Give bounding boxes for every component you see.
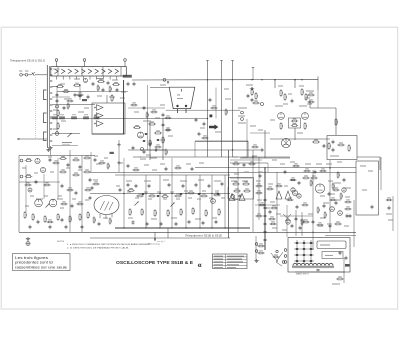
value label xyxy=(318,225,323,227)
resistor R27 xyxy=(291,119,298,122)
value label xyxy=(288,93,292,95)
resistor R timebase xyxy=(335,118,338,126)
input jack J2 xyxy=(25,74,28,77)
capacitor C11 xyxy=(250,87,254,90)
capacitor C58 xyxy=(349,214,352,218)
value label xyxy=(144,191,148,193)
value label xyxy=(266,207,270,209)
resistor pair R5 xyxy=(52,117,57,119)
neon lamp N1 xyxy=(286,220,290,224)
capacitor C66 xyxy=(127,164,130,168)
delay line section 6 xyxy=(88,69,92,74)
capacitor C68 xyxy=(191,167,194,171)
value label xyxy=(270,119,275,121)
grid cap bead xyxy=(167,81,169,83)
value label xyxy=(242,180,248,182)
resistor R126 xyxy=(24,183,31,186)
wire: LF drop a xyxy=(25,165,27,212)
value label xyxy=(258,171,263,173)
resistor R89 xyxy=(150,110,157,113)
tube heater terminal 2 xyxy=(83,59,86,62)
delay line section 4 xyxy=(75,69,79,74)
value label xyxy=(109,96,115,98)
wire xyxy=(264,130,266,158)
ext input jack xyxy=(241,118,244,121)
wire: LF drop c xyxy=(57,158,59,199)
resistor R87 xyxy=(97,85,99,92)
value label xyxy=(305,97,310,99)
rectifier diode D2 xyxy=(303,242,305,244)
wire: LF block top xyxy=(19,155,95,157)
value label xyxy=(144,164,149,166)
resistor R130 xyxy=(60,202,67,205)
resistor R64 xyxy=(69,215,72,223)
switch contact 3 xyxy=(50,80,52,82)
pin 1 of V5 xyxy=(176,105,178,107)
value label xyxy=(34,172,38,174)
capacitor C85 xyxy=(269,210,272,214)
value label xyxy=(78,111,84,113)
value label xyxy=(94,155,98,157)
resistor R25 xyxy=(280,122,283,130)
value label xyxy=(74,78,80,80)
tube element V10b xyxy=(239,194,245,201)
tube V6 xyxy=(278,113,285,120)
tube V16a xyxy=(291,188,295,192)
value label xyxy=(58,195,62,197)
node N33 xyxy=(224,227,225,228)
switch contact 6 xyxy=(50,98,52,100)
capacitor C40 xyxy=(335,201,338,205)
trimmer C5 xyxy=(56,105,59,108)
svg-text:précédentes sont ici: précédentes sont ici xyxy=(15,261,53,265)
wire xyxy=(353,200,355,247)
capacitor C71 xyxy=(259,174,262,178)
wire xyxy=(22,74,25,76)
value label xyxy=(200,127,205,129)
resistor R86 xyxy=(76,93,83,96)
switch contact 5 xyxy=(50,92,52,94)
value label xyxy=(176,198,180,200)
value label xyxy=(337,161,342,163)
EHT enclosure box xyxy=(356,161,379,215)
wire: drop under band xyxy=(147,85,149,150)
resistor R129 xyxy=(84,188,91,191)
wire: drop xyxy=(237,168,239,232)
capacitor C55 xyxy=(239,194,242,198)
wire xyxy=(162,118,164,160)
capacitor C53 xyxy=(261,148,264,152)
wire: stage drop xyxy=(145,175,147,228)
delay line section 9 xyxy=(108,69,112,74)
svg-text:NOTES: NOTES xyxy=(57,241,65,243)
value label xyxy=(272,159,277,161)
node N14 xyxy=(145,193,146,194)
value label xyxy=(328,180,333,182)
capacitor C42 xyxy=(329,224,332,228)
resistor R10 xyxy=(73,83,81,86)
wire: link drop xyxy=(118,140,120,172)
resistor R127 xyxy=(43,183,50,186)
capacitor C1 xyxy=(56,93,59,97)
wire xyxy=(255,204,280,206)
svg-text:Telequipment S51.B & S51.E: Telequipment S51.B & S51.E xyxy=(10,59,45,63)
label EXT TRIG xyxy=(238,107,247,109)
wire xyxy=(52,96,70,98)
V5 apex mark xyxy=(181,89,183,92)
transistor Q5 xyxy=(342,188,346,192)
wire xyxy=(294,128,296,140)
capacitor C50 xyxy=(209,98,212,102)
calibrator capacitor xyxy=(264,198,267,202)
resistor R29 xyxy=(312,140,320,143)
resistor R137 xyxy=(317,206,319,213)
capacitor C76 xyxy=(75,191,78,195)
capacitor C72 xyxy=(284,170,287,174)
diode D4 xyxy=(198,193,200,195)
capacitor C3 xyxy=(92,82,95,86)
node N5 xyxy=(232,79,233,80)
value label xyxy=(221,197,225,199)
plate feed top bar d xyxy=(252,67,254,69)
resistor R128 xyxy=(66,188,73,191)
capacitor C90 xyxy=(79,94,82,98)
potentiometer R51 xyxy=(171,203,175,207)
capacitor C63 xyxy=(119,188,122,192)
pilot terminal xyxy=(255,243,258,246)
capacitor C60 xyxy=(299,226,302,230)
capacitor C9 xyxy=(154,149,158,152)
value label xyxy=(299,85,304,87)
value label xyxy=(170,191,174,193)
resistor R35 xyxy=(136,194,143,197)
coupling network box xyxy=(289,118,301,128)
wire xyxy=(325,235,356,237)
resistor R80 xyxy=(257,244,264,247)
resistor R136 xyxy=(287,198,294,201)
V9 internal structure xyxy=(100,201,113,211)
value label xyxy=(197,198,201,200)
wire xyxy=(35,74,47,76)
value label xyxy=(320,217,325,219)
plate feed top bar xyxy=(231,60,233,62)
wire xyxy=(128,149,165,151)
wire xyxy=(52,145,78,147)
value label xyxy=(118,162,123,164)
capacitor C74 xyxy=(35,180,38,184)
value label xyxy=(242,156,247,158)
potentiometer R67 xyxy=(46,204,50,208)
value label xyxy=(134,111,139,113)
switch S1 (AC/DC) xyxy=(31,72,35,76)
wire xyxy=(123,158,125,175)
capacitor C43 xyxy=(295,217,298,221)
value label xyxy=(231,180,237,182)
wafer bracket 3 xyxy=(44,132,47,141)
value label xyxy=(126,180,132,182)
resistor R104 xyxy=(255,214,262,217)
wire: HT top rail xyxy=(132,79,318,81)
capacitor C61 xyxy=(298,181,301,185)
wire: delay line tap stub xyxy=(116,76,118,80)
node N9 xyxy=(261,79,262,80)
value label xyxy=(250,125,256,127)
plate feed top bar xyxy=(206,60,208,62)
node N12 xyxy=(301,79,302,80)
wire xyxy=(379,157,381,170)
resistor R63 xyxy=(57,213,60,221)
value label xyxy=(299,105,307,107)
calibrator capacitor xyxy=(264,238,267,242)
delay line section 7 xyxy=(95,69,99,74)
resistor R109 xyxy=(344,200,351,203)
pin 2 of V5 xyxy=(185,105,187,107)
diode D8 xyxy=(143,140,145,142)
resistor R138 xyxy=(316,223,323,226)
wire: drop xyxy=(252,150,254,232)
svg-text:OSCILLOSCOPE TYPE S51B & E: OSCILLOSCOPE TYPE S51B & E xyxy=(116,260,194,266)
resistor R75 xyxy=(332,188,339,191)
smoothing capacitor C41 xyxy=(345,256,348,260)
capacitor C13 xyxy=(322,145,326,148)
switch contact 8 xyxy=(50,110,52,112)
resistor R73 xyxy=(310,176,317,179)
trimmer xyxy=(261,103,264,106)
wire: trigger rail xyxy=(270,138,330,140)
wire xyxy=(56,61,58,66)
resistor R82 xyxy=(273,255,280,258)
resistor R84 xyxy=(66,99,73,102)
resistor R125 xyxy=(52,161,59,164)
delay line inner divider 3 xyxy=(102,67,104,76)
tube V15 xyxy=(315,184,324,193)
resistor R70 xyxy=(233,189,241,192)
wire: central upper bus xyxy=(115,174,230,176)
wire: delay line tap stub xyxy=(56,76,58,80)
wire: stage drop xyxy=(224,175,226,228)
capacitor C19 xyxy=(135,184,138,188)
value label xyxy=(144,180,151,182)
svg-text:2. ⊗ DENOTES MDL DE PANNEA: 2. ⊗ DENOTES MDL DE PANNEAU FRONT CALIB. xyxy=(67,247,130,250)
value label xyxy=(258,129,263,131)
rectifier diode D12 xyxy=(310,260,312,262)
trigger selector box xyxy=(229,178,254,200)
resistor R88 xyxy=(109,86,111,93)
value label xyxy=(121,91,126,93)
wire: delay line tap stub xyxy=(62,76,64,80)
ground under LF block xyxy=(26,237,30,240)
resistor R23 xyxy=(301,88,304,96)
capacitor C89 xyxy=(162,123,165,127)
capacitor C75 xyxy=(61,184,64,188)
svg-text:1. ● DENOTES COMMANDES REPO: 1. ● DENOTES COMMANDES REPORTEES EN FACE… xyxy=(67,243,151,246)
cathode follower triangle 2 xyxy=(97,113,104,119)
capacitor C87 xyxy=(203,122,206,126)
value label xyxy=(36,198,43,200)
pilot terminal 2 xyxy=(255,250,258,253)
screen boundary (dashed) xyxy=(35,77,37,139)
wire: delay line tap stub xyxy=(76,76,78,80)
wire xyxy=(150,87,169,89)
transformer T1 winding row xyxy=(292,264,334,268)
capacitor C69 xyxy=(149,142,152,146)
value label xyxy=(53,109,57,111)
wire xyxy=(343,258,345,283)
resistor R121 xyxy=(165,149,167,156)
label grid xyxy=(160,84,166,86)
value label xyxy=(60,207,64,209)
resistor R66 xyxy=(87,211,90,219)
input stage enclosure xyxy=(92,103,125,134)
resistor R30 xyxy=(328,142,331,150)
value label xyxy=(96,78,103,80)
resistor R123 xyxy=(248,162,255,165)
resistor R78 xyxy=(334,222,341,225)
resistor R139 xyxy=(270,222,277,225)
resistor R37 xyxy=(161,194,168,197)
wire xyxy=(230,177,252,179)
capacitor C4 xyxy=(107,81,110,85)
wire xyxy=(28,74,31,76)
resistor R81 xyxy=(257,251,264,254)
capacitor C29 xyxy=(175,222,178,226)
diode D7 xyxy=(217,193,219,195)
value label xyxy=(308,213,313,215)
resistor R24 xyxy=(305,93,308,101)
resistor R106 xyxy=(303,169,310,172)
wire: attenuator column link xyxy=(56,86,58,134)
wire xyxy=(301,212,303,236)
ground at attenuator xyxy=(46,148,50,151)
calibrator capacitor xyxy=(264,222,267,226)
diode D3 xyxy=(157,195,159,197)
resistor R115 xyxy=(92,182,99,185)
value label xyxy=(64,98,69,100)
wire: drop xyxy=(276,172,278,232)
capacitor C73 xyxy=(49,158,52,162)
wire: drop xyxy=(258,157,260,220)
pilot lamp bezel xyxy=(276,250,278,252)
diode D2 xyxy=(157,139,159,141)
resistor R13 xyxy=(111,94,114,102)
value label xyxy=(244,171,249,173)
value label xyxy=(78,169,82,171)
value label xyxy=(362,189,367,191)
value label xyxy=(316,163,322,165)
wire: bold calibrator column xyxy=(264,168,266,250)
node N4 xyxy=(207,79,208,80)
wire: LF block left xyxy=(18,156,20,233)
wire xyxy=(317,76,319,79)
resistor R102 xyxy=(258,203,265,206)
switch contact 11 xyxy=(50,128,52,130)
wire xyxy=(52,104,95,106)
resistor R119 xyxy=(174,166,181,169)
switch linkage diagonals xyxy=(271,252,283,266)
node N29 xyxy=(171,227,172,228)
wire: mid rail 2 xyxy=(140,156,290,158)
vertical amplifier delay line box xyxy=(51,67,127,76)
link blob xyxy=(110,152,114,154)
value label xyxy=(195,218,201,220)
label psu xyxy=(332,283,340,285)
value label xyxy=(133,156,141,158)
wire: delay line tap stub xyxy=(69,76,71,80)
capacitor C20 xyxy=(148,184,151,188)
resistor R62 xyxy=(44,215,47,223)
wire xyxy=(274,80,276,88)
wire xyxy=(227,187,229,199)
wire: delay line tap stub xyxy=(109,76,111,80)
resistor R53 xyxy=(25,174,33,177)
tube V14 xyxy=(292,190,297,195)
value label xyxy=(233,156,238,158)
tube V9 envelope (oval) xyxy=(94,196,119,215)
wire: drop xyxy=(69,150,71,232)
value label xyxy=(163,198,167,200)
resistor R79 xyxy=(301,218,303,225)
capacitor C30 xyxy=(188,220,191,224)
rectifier diode D10 xyxy=(296,260,298,262)
trimmer xyxy=(231,195,235,199)
value label xyxy=(214,180,221,182)
capacitor C23 xyxy=(195,183,198,187)
trimmer C8 xyxy=(55,132,59,136)
resistor R116 xyxy=(93,216,95,223)
delay line inner divider 4 xyxy=(120,67,122,76)
power supply enclosure xyxy=(288,238,350,273)
value label xyxy=(256,180,261,182)
rectifier diode D7 xyxy=(296,254,298,256)
wire with bottom arrow xyxy=(154,232,156,241)
wire: plate feed d xyxy=(252,68,254,80)
value label xyxy=(209,197,213,199)
potentiometer R4 xyxy=(68,133,72,137)
wire xyxy=(128,107,165,109)
capacitor C70 xyxy=(243,163,246,167)
capacitor C35 xyxy=(89,178,92,182)
node N10 xyxy=(274,79,275,80)
tube V7 xyxy=(302,113,309,120)
capacitor C26 xyxy=(132,220,135,224)
value label xyxy=(128,217,133,219)
resistor R74 xyxy=(310,179,312,186)
resistor R134 xyxy=(107,163,109,170)
svg-text:rassemblées sur une seule: rassemblées sur une seule xyxy=(15,265,67,269)
value label xyxy=(282,229,287,231)
node N16 xyxy=(171,193,172,194)
transformer secondary wire xyxy=(295,271,345,273)
transistor Q2 xyxy=(40,167,45,172)
value label xyxy=(151,218,157,220)
label DC xyxy=(25,70,29,72)
resistor R21 xyxy=(280,89,283,97)
resistor R49 xyxy=(218,208,221,216)
resistor R111 xyxy=(302,220,309,223)
node N21 xyxy=(232,149,233,150)
resistor R85 xyxy=(67,103,69,110)
wire: CRT plate feed xyxy=(232,61,234,158)
value label xyxy=(238,122,246,124)
grid cap terminal xyxy=(163,78,166,81)
wire: stage drop xyxy=(199,175,201,228)
wire xyxy=(246,119,248,158)
value label xyxy=(284,185,288,187)
wire: CRT cathode rail xyxy=(166,109,240,111)
resistor R69 xyxy=(242,182,250,185)
value label xyxy=(334,182,341,184)
resistor R36 xyxy=(148,194,155,197)
